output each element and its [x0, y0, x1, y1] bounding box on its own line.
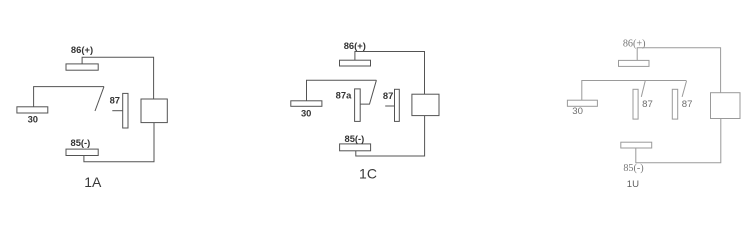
switch arm (movable contact, open): [95, 87, 104, 111]
terminal 30 bar: [567, 100, 597, 106]
contact 87 bar: [395, 89, 400, 121]
svg-text:87: 87: [682, 99, 693, 110]
contact 87 bar (second): [672, 89, 677, 119]
switch arm 2 (movable contact, open): [682, 81, 686, 97]
svg-text:85(-): 85(-): [623, 163, 643, 174]
svg-text:87: 87: [383, 90, 393, 101]
terminal 85 bar: [340, 144, 371, 151]
contact 87 lead: [385, 105, 394, 107]
contact 87 bar: [123, 93, 128, 128]
wire terminal 30 to switch arm pivot: [307, 80, 377, 101]
contact 87 bar (first): [633, 89, 638, 119]
svg-text:85(-): 85(-): [71, 137, 91, 148]
contact 87 lead: [112, 110, 122, 112]
svg-text:30: 30: [28, 114, 38, 125]
svg-text:1C: 1C: [359, 166, 377, 182]
terminal 30 bar: [291, 101, 322, 107]
svg-text:87: 87: [642, 99, 653, 110]
terminal 85 bar: [66, 149, 98, 155]
svg-text:1U: 1U: [627, 179, 639, 190]
coil box: [141, 99, 167, 123]
svg-text:30: 30: [572, 106, 583, 117]
terminal 86 bar: [340, 60, 371, 66]
contact 87a bar: [355, 89, 361, 122]
switch arm (movable contact, resting on 87a): [360, 80, 376, 104]
wire terminal 30 to contacts bus: [582, 81, 687, 101]
terminal 30 bar: [17, 107, 48, 113]
wire terminal 86 to coil top: [82, 57, 154, 99]
svg-text:86(+): 86(+): [344, 40, 366, 51]
coil box: [412, 94, 439, 115]
svg-text:1A: 1A: [84, 174, 102, 190]
svg-text:87a: 87a: [336, 89, 352, 100]
terminal 86 bar: [66, 64, 98, 70]
wire coil bottom to terminal 85: [636, 119, 721, 163]
svg-text:85(-): 85(-): [345, 133, 365, 144]
svg-text:86(+): 86(+): [71, 44, 93, 55]
switch arm 1 (movable contact, open): [641, 81, 645, 97]
wire terminal 86 to coil top: [355, 52, 425, 95]
coil box: [711, 93, 741, 119]
terminal 86 bar: [619, 60, 650, 66]
wire terminal 30 to switch arm pivot: [34, 87, 104, 107]
terminal 85 bar: [621, 142, 652, 148]
wire coil bottom to terminal 85: [84, 123, 154, 162]
wire coil bottom to terminal 85: [356, 116, 425, 156]
wire terminal 86 to coil top: [637, 48, 720, 93]
svg-text:30: 30: [301, 108, 311, 119]
svg-text:87: 87: [110, 95, 120, 106]
